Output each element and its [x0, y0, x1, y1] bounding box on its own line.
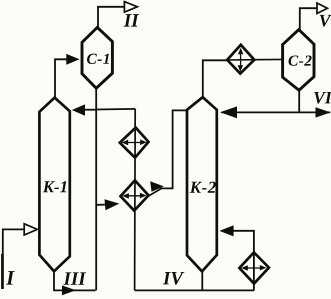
heat exchanger T1 [120, 128, 149, 158]
wire: stream I feed line [3, 229, 24, 288]
wire: stream I feed line lower segment (heavy scan mark) [1, 254, 4, 289]
arrow: open arrowhead stream V [317, 3, 327, 14]
label stream IV [163, 272, 185, 285]
arrow: T2 internal double-head [126, 195, 144, 197]
heat exchanger T2 [121, 180, 149, 210]
arrow: filled arrowhead reflux into K-1 [72, 104, 85, 115]
wire: stream V line from C-2 top [300, 8, 317, 29]
arrow: filled arrowhead reflux into K-2 [220, 106, 237, 118]
wire: K-2 overhead line to condenser T4 [203, 60, 227, 97]
reboiler T3 [239, 252, 269, 283]
wire: stub from line IV up into K-2 bottom [201, 272, 203, 291]
wire: K-1 overhead vapor line to C-1 [55, 59, 68, 97]
label K-1 [43, 181, 67, 192]
arrow: T1 internal double-head [125, 142, 145, 144]
wire: C-2 bottom liquid down to line VI [298, 90, 300, 112]
wire: branch to heat exchanger T1 [96, 108, 135, 111]
label C-1 [87, 54, 109, 64]
arrow: filled arrowhead into C-1 [66, 54, 79, 65]
arrow: filled arrowhead stream VI out [316, 107, 331, 117]
column K-2 [187, 97, 217, 271]
arrow: filled arrowhead reboiler return into K-2 [219, 225, 233, 236]
arrow: filled arrowhead line III [62, 285, 76, 295]
condenser T4 [227, 45, 254, 74]
label C-2 [289, 55, 312, 65]
wire: stream II line from C-1 top [98, 7, 124, 28]
label stream VI [314, 92, 331, 104]
wire: K-1 bottoms line III [54, 271, 96, 290]
wire: C-1 bottoms liquid line (vertical) [95, 88, 97, 290]
arrow: T3 internal double-head [245, 267, 265, 269]
wire: reboiler riser and return into K-2 [234, 231, 254, 291]
wire: line through T4 to C-2 [227, 58, 282, 61]
label stream III [63, 272, 86, 284]
arrow: open arrowhead stream I [24, 224, 37, 235]
arrow: filled arrowhead T2 outlet [150, 181, 164, 192]
column K-1 [39, 98, 69, 272]
label K-2 [190, 182, 216, 193]
separator C-2 [283, 30, 314, 91]
label stream I [6, 271, 15, 284]
separator C-1 [82, 27, 112, 88]
wire: feed branch into T2 [96, 204, 107, 206]
arrow: T4 internal vertical double-head [240, 51, 242, 69]
wire: vertical process line through T1 and T2 down to line IV [134, 109, 137, 291]
arrow: open arrowhead stream II [124, 2, 137, 13]
wire: reflux branch into K-1 [84, 109, 96, 111]
arrow: filled arrowhead into T2 [105, 199, 120, 210]
label stream V [320, 15, 331, 27]
wire: line VI horizontal [222, 111, 331, 113]
wire: line IV bottom run [135, 289, 255, 291]
label stream II [124, 14, 140, 26]
wire: T2 outlet up to column K-2 [149, 110, 187, 196]
